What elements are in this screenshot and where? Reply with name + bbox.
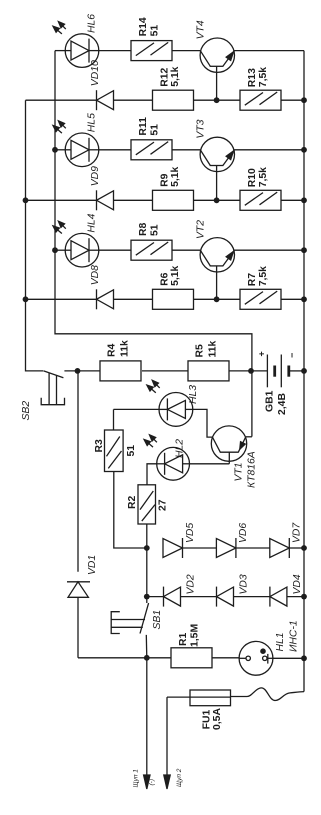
LED HL6 bbox=[65, 34, 99, 68]
svg-text:FU1: FU1 bbox=[201, 710, 212, 730]
resistor R1 1,5M bbox=[171, 648, 212, 668]
svg-text:7,5k: 7,5k bbox=[258, 167, 269, 187]
wire row HL5 bbox=[55, 149, 65, 151]
probe 2 arrow bbox=[164, 775, 170, 789]
svg-text:R5: R5 bbox=[195, 344, 206, 358]
transistor VT4 bbox=[200, 38, 234, 72]
svg-text:R10: R10 bbox=[247, 168, 258, 187]
resistor R12 5,1k bbox=[153, 90, 194, 110]
svg-text:VD8: VD8 bbox=[90, 265, 101, 285]
node VT2 collector junction bbox=[214, 296, 220, 302]
svg-text:R7: R7 bbox=[247, 273, 258, 287]
node VD9 row bbox=[23, 197, 29, 203]
base lead of VT2 bbox=[216, 266, 218, 299]
svg-text:ИНС-1: ИНС-1 bbox=[289, 620, 300, 652]
svg-text:5,1k: 5,1k bbox=[170, 166, 181, 186]
wire bbox=[172, 249, 200, 251]
svg-text:1,5М: 1,5М bbox=[189, 624, 200, 647]
svg-text:2,4В: 2,4В bbox=[277, 393, 288, 415]
node VD8 row bbox=[23, 296, 29, 302]
svg-text:HL2: HL2 bbox=[175, 439, 186, 458]
push button SB1 bbox=[146, 597, 148, 603]
wire bbox=[281, 199, 304, 201]
anode rail to battery plus bbox=[55, 51, 252, 437]
resistor R14 51 bbox=[131, 41, 172, 61]
node HL5 bbox=[52, 147, 58, 153]
wire bbox=[99, 149, 131, 151]
wire fuse to probe 2 bbox=[166, 697, 168, 775]
wire bbox=[99, 50, 131, 52]
svg-text:R4: R4 bbox=[107, 343, 118, 357]
node battery plus bbox=[248, 368, 254, 374]
svg-text:VD9: VD9 bbox=[90, 166, 101, 186]
diode VD9 bbox=[96, 190, 98, 210]
resistor R8 51 bbox=[131, 240, 172, 260]
transistor VT1 KT816A (PNP) bbox=[211, 426, 246, 461]
wire bbox=[183, 547, 217, 549]
node on right rail bbox=[301, 296, 307, 302]
node VT3 emitter bbox=[301, 147, 307, 153]
diode VD10 bbox=[96, 90, 98, 110]
svg-text:VD7: VD7 bbox=[292, 522, 303, 543]
wire R2 down bbox=[146, 524, 148, 548]
LED HL5 bbox=[65, 133, 99, 167]
wire row VD9 bbox=[26, 199, 97, 201]
diode VD2 bbox=[163, 587, 165, 607]
wire row VD10 bbox=[26, 99, 97, 101]
svg-text:51: 51 bbox=[150, 224, 161, 236]
diode VD4 bbox=[269, 587, 271, 607]
diode VD1 bbox=[77, 371, 79, 572]
resistor R9 5,1k bbox=[153, 190, 194, 210]
node right rail VD4 bbox=[301, 594, 307, 600]
svg-text:VT4: VT4 bbox=[195, 20, 206, 39]
vertical net R2-SB1 bbox=[146, 548, 148, 597]
resistor R11 51 bbox=[131, 140, 172, 160]
resistor R2 27 bbox=[138, 485, 156, 524]
svg-text:VT3: VT3 bbox=[195, 119, 206, 138]
svg-text:КТ816А: КТ816А bbox=[246, 451, 257, 488]
svg-text:VD10: VD10 bbox=[90, 60, 101, 86]
svg-text:11k: 11k bbox=[120, 340, 131, 357]
svg-text:R8: R8 bbox=[138, 222, 149, 236]
transistor VT2 bbox=[200, 238, 234, 272]
LED HL3 bbox=[159, 393, 193, 427]
diode VD5 bbox=[163, 539, 183, 558]
svg-text:HL3: HL3 bbox=[188, 385, 199, 404]
svg-text:HL1: HL1 bbox=[275, 632, 286, 651]
svg-text:R13: R13 bbox=[247, 68, 258, 87]
svg-text:SB2: SB2 bbox=[21, 401, 32, 421]
diode VD8 bbox=[96, 289, 98, 309]
wire HL3 left bbox=[114, 408, 160, 410]
resistor R4 11k bbox=[100, 361, 141, 381]
wire bbox=[281, 298, 304, 300]
node VT2 emitter bbox=[301, 247, 307, 253]
LED HL4 bbox=[65, 233, 99, 267]
svg-text:R1: R1 bbox=[178, 632, 189, 646]
node VD2 row bbox=[144, 594, 150, 600]
right rail bbox=[303, 51, 305, 659]
wire bbox=[194, 199, 241, 201]
svg-text:51: 51 bbox=[150, 124, 161, 136]
svg-text:7,5k: 7,5k bbox=[258, 266, 269, 286]
wire bbox=[234, 596, 270, 598]
wire VT1 base to HL2 bbox=[190, 463, 230, 465]
wire bbox=[181, 596, 217, 598]
diode VD3 bbox=[216, 587, 218, 607]
base lead of VT4 bbox=[216, 66, 218, 100]
node R2 / probe net bbox=[144, 545, 150, 551]
wire bbox=[194, 298, 241, 300]
svg-text:SB1: SB1 bbox=[152, 610, 163, 630]
bottom wire bbox=[78, 657, 171, 659]
wire bbox=[114, 99, 153, 101]
node HL1 right bbox=[301, 655, 307, 661]
svg-text:VT2: VT2 bbox=[195, 220, 206, 239]
svg-text:51: 51 bbox=[150, 25, 161, 37]
wire HL2 to R2 bbox=[147, 464, 157, 485]
wire row VD8 bbox=[26, 298, 97, 300]
wire bbox=[287, 596, 304, 598]
wire bbox=[172, 149, 200, 151]
svg-text:R14: R14 bbox=[138, 17, 149, 36]
wire bbox=[281, 99, 304, 101]
node on right rail bbox=[301, 97, 307, 103]
svg-text:R11: R11 bbox=[138, 117, 149, 136]
wire bbox=[172, 50, 200, 52]
wire row HL4 bbox=[55, 249, 65, 251]
svg-text:VT1: VT1 bbox=[233, 462, 244, 481]
svg-text:HL4: HL4 bbox=[87, 213, 98, 232]
node VT3 collector junction bbox=[214, 197, 220, 203]
svg-text:27: 27 bbox=[158, 499, 169, 511]
wire bbox=[194, 99, 241, 101]
node VT4 collector junction bbox=[214, 97, 220, 103]
node SB1 bottom / probe 1 bbox=[144, 655, 150, 661]
svg-text:11k: 11k bbox=[208, 341, 219, 358]
svg-text:HL6: HL6 bbox=[87, 14, 98, 33]
svg-text:R2: R2 bbox=[127, 495, 138, 509]
resistor R6 5,1k bbox=[153, 289, 194, 309]
wire HL3 right to VT1 bbox=[193, 409, 213, 437]
svg-text:(-): (-) bbox=[149, 779, 156, 786]
push button SB2 bbox=[44, 371, 64, 378]
wire bbox=[212, 657, 239, 659]
wire to right rail bbox=[234, 50, 304, 52]
diode VD7 bbox=[270, 539, 290, 558]
svg-text:VD3: VD3 bbox=[239, 574, 250, 594]
left rail (cathode bus) bbox=[26, 100, 44, 371]
base lead of VT3 bbox=[216, 166, 218, 201]
resistor R7 7,5k bbox=[240, 289, 281, 309]
wire bbox=[236, 547, 270, 549]
wire R3 to probe net bbox=[114, 472, 147, 549]
resistor R3 51 bbox=[105, 430, 124, 472]
svg-text:7,5k: 7,5k bbox=[258, 67, 269, 87]
resistor R5 11k bbox=[188, 361, 229, 381]
svg-text:VD1: VD1 bbox=[87, 555, 98, 575]
wire to right rail bbox=[234, 149, 304, 151]
svg-text:VD5: VD5 bbox=[185, 523, 196, 543]
probe 1 arrow bbox=[144, 775, 150, 789]
svg-text:−: − bbox=[287, 353, 297, 358]
svg-text:Щуп 2: Щуп 2 bbox=[176, 768, 183, 787]
diode VD6 bbox=[216, 539, 236, 558]
wire to right rail bbox=[234, 249, 304, 251]
svg-text:GB1: GB1 bbox=[265, 390, 276, 412]
svg-text:5,1k: 5,1k bbox=[170, 66, 181, 86]
svg-text:VD4: VD4 bbox=[292, 574, 303, 594]
wire bbox=[230, 370, 268, 372]
node right rail VD7 bbox=[301, 545, 307, 551]
wire bbox=[114, 199, 153, 201]
wire row HL6 bbox=[55, 50, 65, 52]
svg-text:5,1k: 5,1k bbox=[170, 265, 181, 285]
transistor VT3 bbox=[200, 137, 234, 171]
svg-text:51: 51 bbox=[126, 445, 137, 457]
neon lamp HL1 INS-1 bbox=[239, 641, 273, 675]
LED HL2 bbox=[157, 447, 190, 480]
svg-text:VD2: VD2 bbox=[186, 574, 197, 594]
node SB2 output bbox=[75, 368, 81, 374]
svg-text:VD6: VD6 bbox=[238, 523, 249, 543]
svg-text:HL5: HL5 bbox=[87, 113, 98, 132]
node battery minus bbox=[301, 368, 307, 374]
node HL4 bbox=[52, 247, 58, 253]
svg-text:+: + bbox=[257, 351, 267, 356]
svg-text:R3: R3 bbox=[94, 439, 105, 453]
battery GB1 2,4V bbox=[266, 355, 268, 388]
probe 1 lead bbox=[146, 658, 148, 775]
node on right rail bbox=[301, 197, 307, 203]
fuse FU1 0,5A bbox=[190, 690, 231, 706]
svg-text:0,5А: 0,5А bbox=[212, 708, 223, 730]
wire VD2 row bbox=[147, 596, 164, 598]
svg-text:Щуп 1: Щуп 1 bbox=[132, 769, 139, 788]
resistor R13 7,5k bbox=[240, 90, 281, 110]
wire bbox=[99, 249, 131, 251]
wire bbox=[142, 370, 188, 372]
wire bbox=[114, 298, 153, 300]
flexible wire to fuse bbox=[303, 658, 305, 691]
wire bbox=[289, 547, 304, 549]
resistor R10 7,5k bbox=[240, 190, 281, 210]
wire HL3 to R3 bbox=[113, 409, 115, 430]
